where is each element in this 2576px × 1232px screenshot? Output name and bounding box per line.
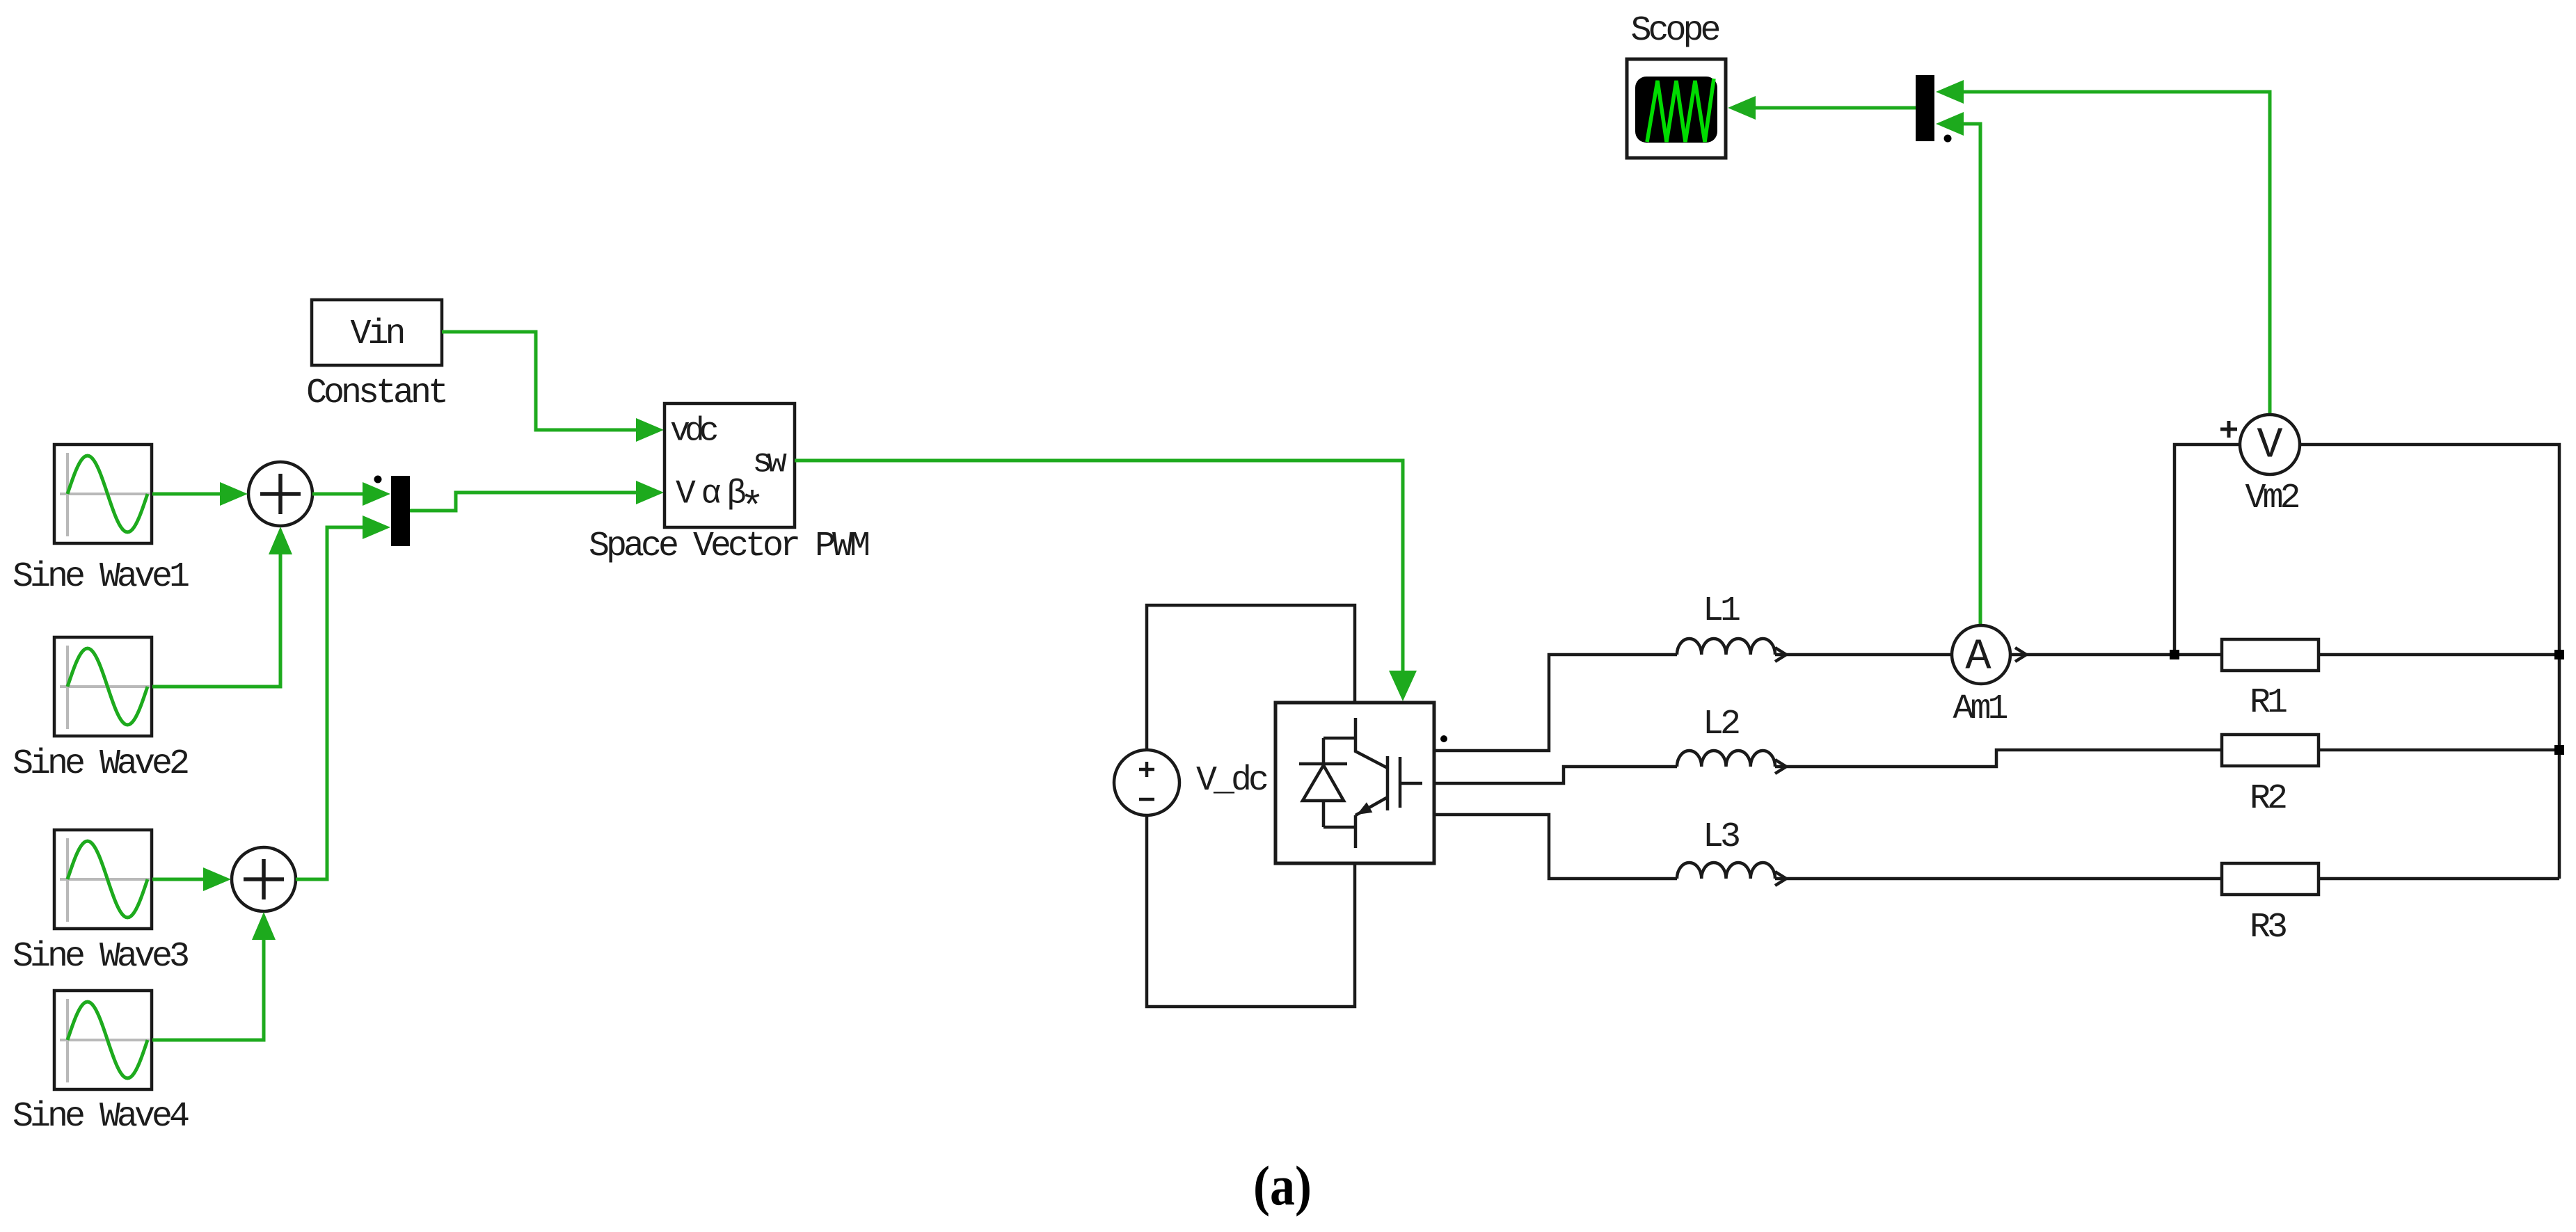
svg-text:Vin: Vin [350,314,403,354]
wire R1 to right bus [2319,653,2559,657]
constant block Vin [312,300,442,365]
wire Add2 to Mux1 [296,515,390,879]
resistor R2 [2222,735,2319,766]
svg-text:Sine Wave1: Sine Wave1 [13,557,189,597]
svg-text:L3: L3 [1703,817,1739,857]
svg-text:Constant: Constant [306,374,445,413]
sine source block Sine Wave1 [54,445,152,543]
wire Vm2 left lead [2175,445,2240,655]
wire inverter phase 3 to L3 [1434,815,1677,879]
svg-text:Am1: Am1 [1953,689,2007,729]
inductor L3 [1677,863,1786,886]
wire Space Vector PWM sw to inverter gate [795,461,1417,701]
svg-text:Sine Wave4: Sine Wave4 [13,1097,189,1137]
wire Am1 to Mux2 [1936,112,1980,625]
svg-text:R2: R2 [2250,779,2286,819]
svg-text:V: V [2257,420,2282,470]
mux Mux2 [1916,75,1934,141]
svg-text:R1: R1 [2250,683,2287,723]
subsystem block Space Vector PWM [665,403,795,531]
junction dot near Mux1 [374,476,382,483]
wire R2 to right bus [2319,749,2559,752]
mux Mux1 [391,476,410,546]
wire inverter phase 2 to L2 [1434,767,1677,783]
svg-text:Vm2: Vm2 [2245,479,2298,518]
svg-text:V_dc: V_dc [1196,761,1267,801]
sine source block Sine Wave2 [54,637,152,736]
ammeter Am1 [1952,625,2010,684]
sine source block Sine Wave3 [54,830,152,929]
voltmeter Vm2 [2220,415,2300,474]
sum block Add1 [248,462,312,526]
svg-text:vdc: vdc [670,413,717,451]
wire inverter phase 1 to L1 [1434,655,1677,751]
svg-text:Scope: Scope [1630,11,1719,51]
wire Add1 to Mux1 [312,482,390,506]
sum block Add2 [232,847,296,911]
IGBT/diode inverter block [1275,703,1434,863]
inductor L1 [1677,639,1786,662]
svg-text:Space Vector PWM: Space Vector PWM [589,527,868,566]
wire right bus [2558,655,2561,879]
svg-text:V α β: V α β [676,476,745,513]
wire Am1 to R1 with arrow [2010,648,2222,662]
svg-text:(a): (a) [1253,1155,1312,1217]
wire L3 to R3 [1775,877,2222,881]
resistor R1 [2222,639,2319,671]
svg-text:Sine Wave2: Sine Wave2 [13,744,188,784]
junction dot at inverter output [1440,735,1447,742]
wire R3 to right bus [2319,877,2559,881]
wire Mux2 to Scope [1728,96,1916,120]
scope block Scope [1627,59,1726,158]
sine source block Sine Wave4 [54,991,152,1089]
wire Sine Wave1 to Add1 [152,482,248,506]
svg-text:L2: L2 [1703,705,1739,744]
junction square at R1 bus [2554,650,2564,659]
wire DC loop left/top/bottom [1147,605,1355,1007]
wire Vm2 to Mux2 [1936,80,2270,415]
inductor L2 [1677,751,1786,774]
wire Sine Wave4 to Add2 [152,912,276,1040]
junction square at Vm2 left tap [2170,650,2179,659]
junction square at R2 bus [2554,745,2564,755]
wire Sine Wave2 to Add1 [152,527,292,687]
wire L1 to Am1 [1775,653,1952,657]
svg-text:*: * [740,486,765,531]
junction dot near Mux2 [1944,135,1952,143]
svg-text:A: A [1965,632,1991,681]
svg-text:R3: R3 [2250,908,2286,947]
DC voltage source V_dc [1114,750,1179,815]
wire L2 to R2 [1775,750,2222,767]
wire Sine Wave3 to Add2 [152,867,231,891]
resistor R3 [2222,863,2319,895]
wire Vin to Space Vector PWM vdc [442,332,664,442]
svg-text:L1: L1 [1703,591,1740,631]
wire Vm2 right lead to bus [2300,445,2559,655]
wire Mux1 to Space Vector PWM [410,481,664,511]
svg-text:Sine Wave3: Sine Wave3 [13,937,188,977]
